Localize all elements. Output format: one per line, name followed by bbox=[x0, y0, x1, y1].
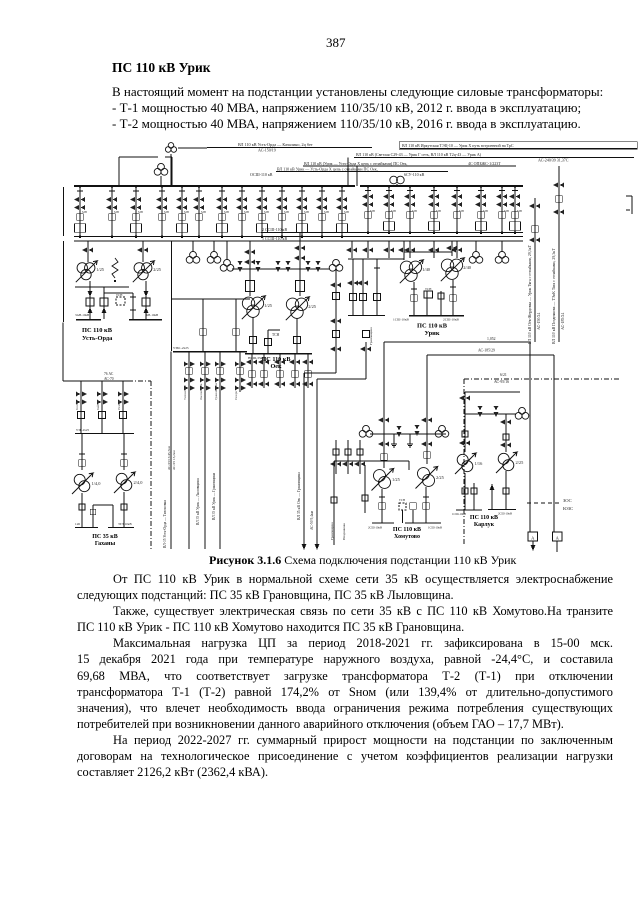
wire top wire Gakhany bbox=[63, 380, 130, 382]
svg-text:1/25: 1/25 bbox=[392, 477, 401, 482]
wire Urik T1 to LV bus bbox=[413, 282, 415, 315]
voltage transformer cluster top left bbox=[165, 147, 171, 153]
wire 35 kV approach Karluk bbox=[465, 413, 516, 415]
feeder bay on 110 kV bus at x=322 bbox=[316, 185, 329, 238]
svg-text:ТСН: ТСН bbox=[272, 333, 280, 337]
heading bbox=[112, 60, 211, 76]
svg-text:Грановщина: Грановщина bbox=[369, 327, 373, 345]
wire Khomutovo T1 to bus bbox=[381, 489, 383, 523]
left bay of Urik x=353 bbox=[347, 259, 358, 315]
busbar 110 kV second system lower bbox=[74, 240, 523, 242]
feeder bay on 110 kV bus at x=342 bbox=[336, 185, 349, 238]
transformer Gakhany T1 1/4,0 bbox=[74, 474, 85, 485]
busbar 35 kV Oek right section bbox=[245, 353, 312, 355]
feeder bay on 110 kV bus at x=112 bbox=[106, 185, 119, 238]
svg-text:1/40: 1/40 bbox=[422, 267, 431, 272]
svg-text:ВЛ 110 кВ Иркутская ТЭЦ-10 — У: ВЛ 110 кВ Иркутская ТЭЦ-10 — Урик Х путь… bbox=[402, 143, 514, 148]
wire Urik T2 to LV bus bbox=[452, 280, 454, 315]
svg-text:Лыловщина: Лыловщина bbox=[199, 383, 203, 400]
svg-text:ПС 110 кВ: ПС 110 кВ bbox=[417, 323, 448, 330]
svg-text:УЗБ-2х25: УЗБ-2х25 bbox=[76, 428, 89, 432]
line VL 35 kV Ust-Orda - Tikhonovka (long feeder) bbox=[170, 352, 172, 550]
svg-text:1,052: 1,052 bbox=[487, 337, 496, 342]
svg-text:МВ: МВ bbox=[324, 210, 329, 214]
left bay of Urik x=377 bbox=[374, 259, 381, 315]
wire route L1 to Khomutovo T1 / VL corridor bbox=[384, 341, 530, 343]
svg-text:АС-50 9,4км: АС-50 9,4км bbox=[310, 510, 315, 530]
svg-text:1/16: 1/16 bbox=[475, 461, 484, 466]
outgoing 35 kV bay Oek right at x=308 bbox=[302, 354, 313, 389]
TSN dashed box Khomutovo bbox=[399, 503, 406, 510]
wire drop to Ust-Orda T1 bbox=[87, 241, 89, 262]
feeder bay on 110 kV bus at x=136 bbox=[130, 185, 143, 238]
wire middle reserve bay bbox=[267, 330, 269, 353]
busbar 35 kV Gakhany bbox=[75, 433, 134, 435]
outgoing 35 kV bay Oek right at x=264 bbox=[258, 354, 269, 389]
feeder bay on 110 kV bus right section at x=389 bbox=[383, 185, 396, 234]
wire route to Karluk bbox=[465, 391, 520, 393]
svg-text:АС-95 13,2км: АС-95 13,2км bbox=[172, 450, 177, 470]
busbar 10 kV Urik left stub bbox=[348, 315, 385, 317]
disconnectors on tie bbox=[397, 426, 402, 437]
svg-text:МВ: МВ bbox=[370, 209, 375, 213]
wire drop to Oek T2 bbox=[299, 233, 301, 297]
line VL corridor right lower bbox=[553, 355, 555, 532]
disconnector on transfer wire at x=258 bbox=[256, 261, 261, 272]
svg-text:АС-150/19: АС-150/19 bbox=[258, 148, 276, 153]
svg-text:2 ССШ-110 кВ: 2 ССШ-110 кВ bbox=[262, 227, 287, 232]
transformer Oek T1 1/25 (three-winding) bbox=[242, 297, 254, 309]
auxiliary box Khomutovo bbox=[410, 503, 417, 510]
wire Oek T2 to LV bus bbox=[296, 318, 298, 353]
box on Khomutovo left edge bbox=[331, 497, 337, 503]
svg-text:6СУ-110 кВ: 6СУ-110 кВ bbox=[404, 172, 425, 177]
wire 35 kV tie line Khomutovo bbox=[370, 433, 446, 435]
busbar 10 kV Gakhany right bbox=[108, 527, 134, 529]
top right corner bracket bbox=[626, 195, 632, 197]
svg-text:Хомутово: Хомутово bbox=[394, 534, 420, 540]
wire drop Karluk T1 bbox=[464, 414, 466, 452]
svg-text:ВЛ 110 кВ Позднякова — ТЭиК Тя: ВЛ 110 кВ Позднякова — ТЭиК Тяга с отпай… bbox=[552, 248, 557, 344]
wire drop from line row to right bus section bbox=[356, 166, 358, 186]
svg-text:ЮЗС: ЮЗС bbox=[563, 506, 573, 511]
wire feeder toward Khomutovo B bbox=[317, 331, 371, 380]
wire long feeder A down to Granovshchina bbox=[303, 373, 305, 545]
busbar 110 kV main, right section bbox=[360, 185, 523, 187]
svg-text:2СШ-10кВ: 2СШ-10кВ bbox=[368, 526, 382, 530]
feeder bay on 110 kV bus right section at x=457 bbox=[451, 185, 464, 234]
svg-text:2/25: 2/25 bbox=[308, 304, 317, 309]
busbar 10 kV Urik bbox=[409, 315, 464, 317]
division boundary ZOS/YuZS dashed bbox=[527, 502, 562, 504]
transfer wire 35 kV Oek bbox=[232, 268, 330, 270]
feeder bay on 110 kV bus at x=282 bbox=[276, 185, 289, 238]
transformer Karluk T2 2/25 bbox=[498, 453, 509, 464]
svg-text:Гаханы: Гаханы bbox=[95, 541, 116, 547]
svg-text:МВ: МВ bbox=[82, 210, 87, 214]
svg-text:МВ: МВ bbox=[264, 210, 269, 214]
feeder bay on 110 kV bus right section at x=481 bbox=[475, 185, 488, 234]
svg-text:АС-70: АС-70 bbox=[104, 377, 114, 381]
svg-text:2/25: 2/25 bbox=[153, 267, 162, 272]
busbar 10 kV Khomutovo left segment bbox=[372, 522, 394, 524]
bay at x=104 bbox=[100, 287, 108, 319]
svg-text:Карлук: Карлук bbox=[474, 522, 495, 528]
svg-text:1/4,0: 1/4,0 bbox=[92, 481, 102, 487]
voltage transformer cluster below bus at x=214 bbox=[207, 241, 221, 263]
busbar 10 kV Karluk right segment bbox=[488, 509, 516, 511]
dash-dot boundary Gakhany bbox=[128, 380, 151, 382]
svg-text:1/25: 1/25 bbox=[96, 267, 105, 272]
transformer Khomutovo T2 2/25 bbox=[417, 468, 429, 480]
svg-text:ПС 35 кВ: ПС 35 кВ bbox=[92, 534, 117, 540]
transformer Urik T2 2/40 (three-winding) bbox=[441, 259, 453, 271]
svg-text:Урик: Урик bbox=[424, 330, 439, 337]
wire drop to Ust-Orda T2 bbox=[142, 241, 144, 262]
stub below second bus at x=368 bbox=[362, 241, 373, 258]
wire drop Karluk T2 bbox=[505, 414, 507, 452]
svg-text:2/25: 2/25 bbox=[516, 460, 525, 465]
feeder bay on 110 kV bus at x=162 bbox=[156, 185, 169, 238]
feeder bay on 110 kV bus at x=242 bbox=[236, 185, 249, 238]
wire link between T feeds bbox=[404, 251, 452, 253]
wire drop to Urik T2 bbox=[451, 241, 453, 256]
boundary box Khomutovo bbox=[334, 460, 409, 462]
svg-text:ТСН: ТСН bbox=[399, 498, 406, 502]
svg-text:Усть-Орда: Усть-Орда bbox=[82, 335, 113, 342]
page number bbox=[326, 35, 346, 51]
disconnectors on Karluk approach bbox=[478, 406, 483, 417]
stub below second bus at x=352 bbox=[346, 241, 357, 258]
svg-text:ПС 110 кВ: ПС 110 кВ bbox=[82, 327, 113, 334]
svg-text:ВЛ 35 кВ Урик — Грановщина: ВЛ 35 кВ Урик — Грановщина bbox=[212, 473, 216, 520]
wire Khomutovo T2 to bus bbox=[425, 487, 427, 523]
wire 35 kV Ust-Orda to Gakhany bbox=[62, 323, 64, 382]
wire drop left subnet x=236 bbox=[235, 299, 237, 351]
earthing stub on tie 2 bbox=[409, 434, 411, 441]
voltage transformer cluster right end of transfer wire bbox=[329, 264, 336, 271]
transformer Oek T2 2/25 (three-winding) bbox=[286, 298, 298, 310]
busbar 10 kV Karluk left segment bbox=[456, 509, 482, 511]
feeder bay on 110 kV bus right section at x=502 bbox=[496, 185, 509, 234]
svg-text:УЗБ1-2х25: УЗБ1-2х25 bbox=[173, 346, 189, 350]
svg-text:МВ: МВ bbox=[391, 209, 396, 213]
body text bbox=[77, 571, 613, 780]
svg-text:ВЛ 35 кВ Оек — Грановщина: ВЛ 35 кВ Оек — Грановщина bbox=[297, 472, 301, 520]
transformer Ust-Orda T2 2/25 (three-winding) bbox=[134, 263, 144, 273]
svg-text:2СШ-10кВ: 2СШ-10кВ bbox=[498, 512, 512, 516]
disconnector on transfer wire at x=240 bbox=[238, 261, 243, 272]
line VL 110 kV Pozdnyakova - Urik (long vertical) bbox=[558, 166, 560, 342]
feeder bay on 110 kV bus right section at x=515 bbox=[509, 185, 522, 234]
earthing stub on tie 1 bbox=[393, 434, 395, 441]
svg-text:Позднякова: Позднякова bbox=[342, 523, 346, 540]
stub below second bus at x=389 bbox=[383, 241, 394, 258]
svg-text:ВЛ 110 кВ Оёк-Жердовка — Урик: ВЛ 110 кВ Оёк-Жердовка — Урик Тяга с отп… bbox=[528, 244, 533, 344]
feeder bay on 110 kV bus at x=222 bbox=[216, 185, 229, 238]
disconnector on transfer wire at x=318 bbox=[316, 261, 321, 272]
svg-text:Резерв: Резерв bbox=[234, 391, 238, 400]
outgoing 35 kV bay Oek right at x=280 bbox=[274, 354, 285, 389]
incoming 35 kV bay Gakhany at x=102 bbox=[96, 381, 108, 433]
svg-text:1хБ: 1хБ bbox=[75, 522, 80, 526]
svg-text:МВ: МВ bbox=[244, 210, 249, 214]
disconnector on transfer wire at x=288 bbox=[286, 261, 291, 272]
wire Gakhany T1 drop bbox=[81, 433, 83, 470]
line VL corridor left lower bbox=[529, 342, 531, 532]
wire drop left subnet x=203 bbox=[202, 299, 204, 351]
transformer Karluk T1 1/16 bbox=[457, 454, 468, 465]
svg-text:МВ: МВ bbox=[412, 209, 417, 213]
svg-text:ВЛ-35 Усть-Орда — Тихоновка: ВЛ-35 Усть-Орда — Тихоновка bbox=[163, 500, 167, 548]
bay T2 LV at x=146 bbox=[142, 281, 150, 319]
wire Karluk T1 to bus bbox=[464, 473, 466, 510]
voltage transformer cluster tie right bbox=[435, 430, 442, 437]
left bay of Urik x=363 bbox=[357, 259, 368, 315]
svg-text:МВ: МВ bbox=[114, 210, 119, 214]
voltage transformer cluster below bus at x=193 bbox=[186, 241, 200, 263]
svg-text:1СШ-10кВ: 1СШ-10кВ bbox=[393, 318, 410, 322]
left stub bay Khomutovo bbox=[364, 465, 366, 513]
TSN dashed box bbox=[116, 297, 125, 305]
svg-text:ЗАН-10кВ: ЗАН-10кВ bbox=[75, 313, 89, 317]
wire left subnet of Oek bbox=[172, 298, 251, 300]
feeder bay on 110 kV bus at x=80 bbox=[74, 185, 87, 238]
svg-text:6/21: 6/21 bbox=[500, 373, 507, 377]
svg-text:ПС 110 кВ: ПС 110 кВ bbox=[470, 515, 498, 521]
svg-text:МВ: МВ bbox=[304, 210, 309, 214]
voltage transformer cluster on bus approach bbox=[154, 168, 161, 175]
line VL 110 kV Oek-Zherdovka - Urik (long vertical) bbox=[534, 198, 536, 342]
busbar 110 kV main, left section bbox=[74, 185, 355, 187]
transformer Khomutovo T1 1/25 bbox=[373, 470, 385, 482]
svg-text:ЗОС: ЗОС bbox=[563, 498, 572, 503]
voltage transformer cluster Karluk bbox=[515, 412, 522, 419]
terminal box A left bbox=[528, 532, 538, 541]
wire feeder toward Khomutovo A bbox=[304, 269, 341, 373]
svg-text:1СШ-10кВ: 1СШ-10кВ bbox=[452, 512, 466, 516]
svg-text:Резерв: Резерв bbox=[117, 400, 121, 410]
outgoing 35 kV bay Oek at x=220 bbox=[214, 352, 226, 401]
outgoing 35 kV bay Oek right at x=252 bbox=[246, 354, 257, 389]
stub below second bus at x=457 bbox=[451, 241, 462, 258]
transformer Gakhany T2 2/4,0 bbox=[116, 473, 127, 484]
svg-text:АС-240/39 31,37С: АС-240/39 31,37С bbox=[538, 158, 569, 164]
svg-text:2/25: 2/25 bbox=[436, 475, 445, 480]
line VL 35 kV feeder at 220 (long) bbox=[219, 392, 221, 549]
wire Oek T1 to LV bus bbox=[252, 317, 254, 353]
transformer Urik T1 1/40 (three-winding) bbox=[400, 261, 412, 273]
svg-text:МВ: МВ bbox=[164, 210, 169, 214]
svg-text:4С ОПБЖС-1/223Т: 4С ОПБЖС-1/223Т bbox=[468, 161, 501, 166]
figure caption bbox=[209, 553, 516, 568]
wire approach of Urik left bays bbox=[348, 258, 404, 260]
wire drop Khomutovo T1 bbox=[383, 415, 385, 468]
wire drop Khomutovo T2 bbox=[426, 415, 428, 464]
dash-dot boundary around Karluk bbox=[464, 378, 620, 380]
busbar 110 kV transfer bbox=[261, 232, 523, 234]
svg-text:МВ: МВ bbox=[138, 210, 143, 214]
svg-text:А: А bbox=[556, 536, 560, 541]
svg-text:КВ-10кВ: КВ-10кВ bbox=[146, 313, 158, 317]
svg-text:1СШ-10кВ: 1СШ-10кВ bbox=[428, 526, 442, 530]
busbar 10 kV Gakhany left bbox=[75, 527, 98, 529]
svg-text:ПС 110 кВ: ПС 110 кВ bbox=[393, 527, 421, 533]
feeder bay on 110 kV bus right section at x=410 bbox=[404, 185, 417, 234]
feeder bay on 110 kV bus at x=182 bbox=[176, 185, 189, 238]
svg-text:МВ: МВ bbox=[504, 209, 509, 213]
svg-text:МВ: МВ bbox=[224, 210, 229, 214]
busbar 110 kV second system upper bbox=[74, 236, 523, 238]
wire middle TSN bays of Urik bbox=[426, 291, 428, 315]
stub below second bus at x=434 bbox=[428, 241, 439, 258]
svg-text:ТСН: ТСН bbox=[116, 293, 123, 297]
voltage transformer pair on bus bbox=[390, 176, 398, 184]
wire middle bays Karluk bbox=[473, 483, 475, 510]
outgoing 35 kV bay Oek right at x=295 bbox=[289, 354, 300, 389]
svg-text:2СШ-10кВ: 2СШ-10кВ bbox=[443, 318, 460, 322]
bay at x=133 bbox=[104, 293, 136, 319]
svg-text:2/4,0: 2/4,0 bbox=[134, 480, 144, 486]
incoming 35 kV bays Khomutovo from Oek bbox=[330, 440, 341, 474]
svg-text:МВ: МВ bbox=[483, 209, 488, 213]
wire top incoming feeder bbox=[178, 147, 207, 149]
transformer Ust-Orda T1 1/25 (three-winding) bbox=[77, 263, 87, 273]
busbar 10 kV Ust-Orda right segment bbox=[129, 319, 162, 321]
feeder bay on 110 kV bus at x=302 bbox=[296, 185, 309, 238]
outgoing 35 kV bay Oek at x=189 bbox=[183, 352, 195, 401]
svg-text:АС-185/29: АС-185/29 bbox=[478, 349, 495, 353]
left boundary wire bbox=[63, 187, 65, 236]
wire Gakhany T2 drop bbox=[123, 433, 125, 470]
feeder bay on 110 kV bus at x=262 bbox=[256, 185, 269, 238]
svg-text:ОСШ-110 кВ: ОСШ-110 кВ bbox=[250, 172, 273, 177]
voltage transformer cluster below bus x=502 bbox=[495, 241, 509, 263]
wire long feeder B down bbox=[316, 379, 318, 545]
wire routing rectangle above bus bbox=[119, 156, 158, 158]
disconnector on transfer wire at x=278 bbox=[276, 261, 281, 272]
svg-text:Бозой: Бозой bbox=[75, 402, 79, 410]
disconnector on transfer wire at x=308 bbox=[306, 261, 311, 272]
line VL 35 kV feeder at 205 (long) bbox=[204, 392, 206, 549]
incoming 35 kV bay Gakhany at x=81 bbox=[75, 381, 87, 433]
voltage transformer cluster at 227 bbox=[220, 241, 234, 271]
outgoing 35 kV bay Oek at x=240 bbox=[234, 352, 246, 401]
outgoing 35 kV bay Oek at x=205 bbox=[199, 352, 211, 401]
surge arrester between transformers bbox=[112, 258, 118, 278]
svg-text:А: А bbox=[531, 536, 535, 541]
stub below second bus at x=410 bbox=[404, 241, 415, 258]
busbar 10 kV Ust-Orda left segment bbox=[76, 319, 101, 321]
voltage transformer cluster below bus x=476 bbox=[469, 241, 483, 263]
svg-text:МВ: МВ bbox=[184, 210, 189, 214]
svg-text:1/25: 1/25 bbox=[264, 303, 273, 308]
svg-text:Байтог: Байтог bbox=[96, 400, 100, 410]
wire under T1 tertiary bbox=[75, 286, 129, 288]
busbar 10 kV Khomutovo right segment bbox=[405, 522, 441, 524]
line VL 35 kV feeder at 189 (long) bbox=[188, 392, 190, 549]
svg-text:МВ: МВ bbox=[284, 210, 289, 214]
svg-text:МВ: МВ bbox=[201, 210, 206, 214]
svg-text:76 АС: 76 АС bbox=[104, 372, 114, 376]
svg-text:АС-185/24: АС-185/24 bbox=[561, 313, 565, 330]
wire drop to Oek T1 bbox=[249, 241, 251, 296]
wire Gakhany T1 to LV bus bbox=[81, 493, 83, 527]
terminal box A right bbox=[553, 532, 563, 541]
incoming 35 kV bay Gakhany at x=123 bbox=[117, 381, 129, 433]
svg-text:Грановщина: Грановщина bbox=[214, 383, 218, 400]
wire Gakhany T2 to LV bus bbox=[123, 492, 125, 527]
svg-text:ТСН: ТСН bbox=[425, 287, 432, 291]
wire middle link Gakhany bbox=[93, 504, 113, 506]
wire route L2 corner to VL corridor bbox=[427, 354, 554, 356]
feeder bay on 110 kV bus right section at x=434 bbox=[428, 185, 441, 234]
svg-text:МВ: МВ bbox=[517, 209, 522, 213]
svg-text:МВ: МВ bbox=[459, 209, 464, 213]
voltage transformer cluster tie left bbox=[359, 430, 366, 437]
svg-text:МВ: МВ bbox=[344, 210, 349, 214]
svg-text:2/40: 2/40 bbox=[463, 265, 472, 270]
feeder bay on 110 kV bus at x=199 bbox=[193, 185, 206, 238]
intro paragraph bbox=[112, 84, 617, 133]
svg-text:НСШ-35кВ: НСШ-35кВ bbox=[248, 356, 265, 360]
svg-text:Грановщина: Грановщина bbox=[330, 522, 334, 540]
wire 35kV transfer lead bbox=[171, 241, 173, 351]
svg-text:ЗТЭ-10кВ: ЗТЭ-10кВ bbox=[118, 522, 132, 526]
svg-text:АС-150/24: АС-150/24 bbox=[537, 313, 541, 330]
svg-text:ВЛ 35 кВ Урик — Лыловщина: ВЛ 35 кВ Урик — Лыловщина bbox=[196, 478, 200, 525]
bay T1 LV at x=90 bbox=[86, 281, 94, 319]
svg-text:Тихоновка: Тихоновка bbox=[183, 385, 187, 400]
feeder bay on 110 kV bus right section at x=368 bbox=[362, 185, 375, 234]
svg-text:МВ: МВ bbox=[436, 209, 441, 213]
wire drop to Urik T1 bbox=[403, 241, 405, 260]
wire Karluk T2 to bus bbox=[505, 471, 507, 510]
busbar 35 kV Oek left section bbox=[173, 351, 247, 353]
left tie wire between buses bbox=[63, 241, 65, 322]
svg-text:АС-95/16: АС-95/16 bbox=[494, 380, 509, 384]
